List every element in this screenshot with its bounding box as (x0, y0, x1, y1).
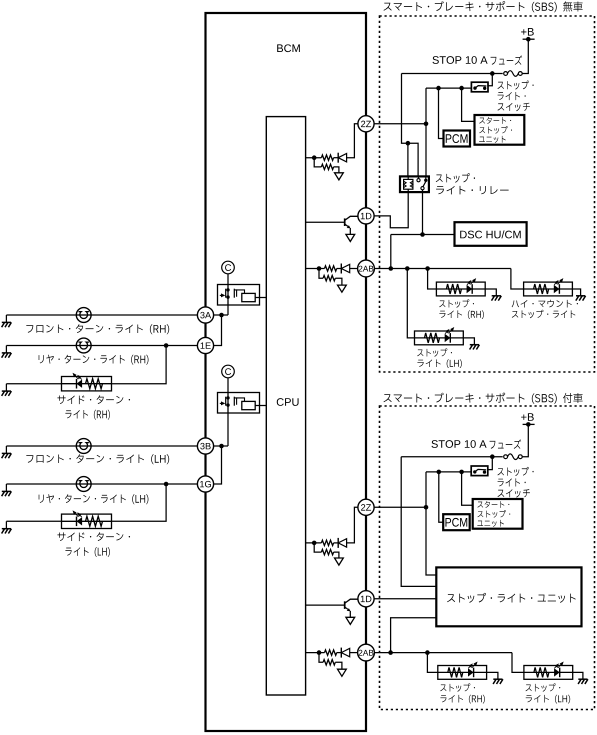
wire fuse to left (401, 456, 503, 458)
diode (337, 153, 339, 163)
resistor (323, 276, 335, 281)
bulb rear turn RH (76, 338, 91, 353)
wire down to stop light unit (401, 457, 436, 587)
ground stop LH lower (578, 679, 588, 684)
wire down to relay feed (402, 74, 408, 144)
label switch line2 (498, 92, 526, 100)
label side turn LH line2 (65, 547, 109, 557)
BCM label (277, 44, 300, 52)
ground side turn LH (5, 521, 7, 528)
wire lamp to ground (485, 289, 496, 296)
label rear turn RH (39, 355, 149, 365)
wire +B to fuse (522, 39, 528, 73)
ground high mount (576, 296, 586, 301)
branch wire (319, 653, 323, 663)
junction SSU feed (459, 86, 464, 91)
wire bulb to 1E (91, 345, 198, 347)
gate wire to driver IC (234, 398, 236, 405)
label switch2 line3 (498, 489, 530, 497)
open triangle ground (346, 617, 355, 624)
open triangle ground (346, 234, 355, 241)
transistor (344, 218, 346, 226)
branch wire (314, 158, 321, 167)
label stop LH lower line2 (526, 695, 570, 704)
+B supply (521, 28, 534, 36)
label fuse katakana (491, 55, 523, 65)
wire 1D to unit (374, 598, 436, 600)
MOSFET symbol (227, 285, 229, 306)
wire relay contact to DSC wire (422, 192, 424, 234)
resistor (325, 650, 337, 655)
wire (335, 278, 342, 285)
label start-stop-unit line3 (477, 520, 504, 527)
wire CPU to 2Z output network (305, 157, 321, 159)
wire lamp to ground (463, 338, 474, 345)
ground front turn RH (5, 315, 7, 322)
relay contact (418, 176, 420, 178)
wire to PCM lower (439, 472, 443, 522)
label stop light unit (447, 593, 576, 603)
wire to 2Z (347, 124, 359, 158)
wire switch horizontal (426, 87, 471, 89)
label front turn RH (26, 324, 169, 334)
label start-stop-unit line3 (479, 136, 506, 143)
wire emitter to triangle (349, 228, 351, 234)
label fuse katakana lower (490, 439, 522, 449)
label stop RH line2 (439, 310, 483, 319)
fuse STOP 10A lower (504, 455, 508, 459)
wire to stop light RH (428, 269, 437, 290)
label stop RH lower line1 (440, 683, 475, 691)
label stop RH line1 (439, 299, 474, 307)
junction PCM feed (437, 470, 442, 475)
ground front turn LH (5, 446, 7, 453)
wire DSC horizontal (391, 234, 455, 236)
ground stop RH (492, 296, 502, 301)
connector C circle (222, 261, 235, 274)
wire driver to CPU (255, 405, 266, 407)
BCM box (206, 13, 367, 731)
wire side lamp to rear wire (112, 484, 167, 521)
wire to PCM (439, 88, 444, 138)
junction stop RH branch lower (425, 650, 430, 655)
wire emitter to triangle (349, 611, 351, 617)
resistor (325, 266, 337, 271)
PCM box upper (444, 131, 471, 147)
wire lamp to ground (572, 289, 580, 296)
label relay line1 (436, 173, 475, 183)
junction (317, 266, 322, 271)
wire bulb to 1G (91, 483, 198, 485)
wire +B to fuse (522, 424, 528, 456)
dashed box SBS-less system (380, 16, 595, 372)
CPU box (266, 117, 305, 695)
label relay line2 (436, 186, 509, 195)
bulb front turn RH (76, 308, 91, 323)
connector 1D (358, 208, 374, 224)
label start-stop-unit line2 (478, 510, 511, 518)
branch wire (314, 543, 321, 552)
label side turn RH line2 (65, 410, 109, 420)
resistor (321, 164, 333, 169)
wire 3A into BCM (213, 314, 228, 316)
wire ground to bulb (6, 345, 76, 347)
wire side lamp to rear wire (112, 346, 167, 384)
resistor (321, 540, 333, 545)
wire ground to side lamp (6, 383, 61, 385)
connector 3A (197, 307, 213, 323)
wire CPU to 2AB (305, 652, 325, 654)
wire to relay coil (407, 143, 409, 176)
junction PCM feed (436, 86, 441, 91)
bulb rear turn LH (76, 477, 91, 492)
stop light LH lamp (415, 331, 464, 345)
junction DSC (420, 232, 425, 237)
label side turn RH line1 (57, 395, 130, 404)
junction (312, 541, 317, 546)
ground rear turn LH (5, 484, 7, 491)
side turn light LH lamp (62, 514, 112, 528)
wire to relay contact (408, 143, 418, 176)
wire lamp to ground (487, 672, 498, 679)
start stop unit box upper (475, 115, 525, 145)
ground side turn RH (5, 384, 7, 391)
branch to 1G (213, 446, 222, 484)
wire switch to fuse node (487, 71, 492, 86)
wire (334, 167, 339, 173)
wire (335, 662, 342, 669)
+B supply lower (521, 413, 534, 421)
connector 3B (197, 438, 213, 454)
diode (337, 538, 339, 548)
label start-stop-unit line2 (479, 126, 512, 134)
connector 1D (358, 591, 374, 607)
label stop LH lower line1 (526, 683, 561, 691)
driver IC (242, 293, 255, 301)
ground stop RH lower (493, 679, 503, 684)
label switch2 line2 (498, 478, 526, 486)
connector C circle (222, 365, 235, 378)
label switch2 line1 (498, 467, 534, 476)
driver IC (242, 401, 255, 409)
junction 2Z node (424, 122, 429, 127)
junction fuse-switch (490, 71, 495, 76)
label rear turn LH (39, 494, 149, 504)
stop light RH lamp lower (438, 666, 487, 680)
dashed box SBS-equipped system (380, 406, 595, 710)
bulb front turn LH (76, 439, 91, 454)
wire 2Z to unit vertical (374, 506, 426, 508)
wire 2AB stop light bus (374, 268, 511, 270)
wire driver2 to 3B wire (227, 413, 229, 446)
open triangle ground (335, 173, 344, 180)
label switch line3 (498, 103, 530, 111)
title SBS-less (384, 1, 583, 12)
junction stop RH branch (425, 266, 430, 271)
junction (312, 155, 317, 160)
wire 2AB stop light bus lower (374, 652, 512, 654)
driver box (output transistor module) (218, 285, 260, 306)
wire CPU to transistor base (305, 221, 345, 223)
wire C to driver (227, 378, 229, 393)
junction to DSC branch (389, 266, 394, 271)
high mount stop light lamp (524, 282, 573, 296)
label switch line1 (498, 81, 534, 90)
connector 2Z (358, 116, 374, 132)
ground rear turn RH (5, 346, 7, 353)
wire 2Z to switch-relay vertical (374, 123, 426, 125)
label STOP fuse (432, 56, 487, 64)
connector 1G (197, 476, 213, 492)
wire C to driver (227, 274, 229, 285)
wire down to 2AB wire (390, 235, 392, 269)
wire lamp to ground (573, 672, 583, 679)
diode (340, 264, 342, 274)
connector 2Z (358, 499, 374, 515)
junction (219, 444, 224, 449)
stop light RH lamp (436, 282, 485, 296)
stop light switch lower (471, 466, 488, 476)
connector 1E (197, 337, 213, 353)
wire ground to bulb (6, 483, 76, 485)
stop light switch upper (471, 82, 488, 92)
wire fuse to left (402, 73, 503, 75)
junction (219, 313, 224, 318)
PCM box lower (443, 514, 470, 530)
wire unit to 2AB bus (391, 618, 437, 653)
stop light relay box (400, 176, 429, 192)
resistor (321, 155, 333, 160)
junction unit branch (388, 650, 393, 655)
branch to 1E (213, 315, 222, 346)
junction 2Z node lower (424, 505, 429, 510)
stop light unit box (436, 567, 581, 626)
wire to start stop unit lower (462, 472, 473, 505)
label stop RH lower line2 (440, 695, 484, 704)
wire bulb to 3B (91, 445, 198, 447)
wire to stop light RH lower (427, 653, 437, 673)
wire 1D to relay coil (374, 192, 408, 228)
wire to 2Z (347, 507, 359, 543)
wire CPU to 2AB (305, 268, 325, 270)
junction (317, 650, 322, 655)
CPU label (277, 398, 299, 406)
label high mount line1 (512, 300, 578, 308)
branch wire (319, 269, 323, 279)
MOSFET symbol (227, 393, 229, 414)
connector 2AB (358, 260, 375, 277)
wire ground to side lamp (6, 520, 61, 522)
wire to high mount stop light (511, 269, 524, 290)
junction SSU feed (459, 470, 464, 475)
diode (340, 648, 342, 658)
wire CPU to transistor base (305, 604, 345, 606)
junction side LH (164, 482, 169, 487)
stop light LH lamp lower (524, 666, 573, 680)
relay coil (404, 179, 413, 189)
wire driver1 to 3A wire (227, 305, 229, 315)
wire to stop light LH lower (512, 653, 524, 673)
wire switch node down to relay (425, 88, 427, 176)
open triangle ground (335, 558, 344, 565)
transistor (344, 601, 346, 609)
ground stop LH (470, 345, 480, 350)
label front turn LH (26, 454, 169, 464)
label start-stop-unit line1 (479, 117, 511, 124)
label high mount line2 (512, 310, 576, 318)
wire CPU to 2Z output network (305, 542, 321, 544)
label STOP fuse lower (431, 440, 486, 448)
connector 2AB (358, 644, 375, 661)
driver box (output transistor module) (218, 393, 260, 414)
label side turn LH line1 (57, 532, 130, 541)
label stop LH line1 (417, 348, 452, 356)
junction stop LH branch (405, 266, 410, 271)
wire (334, 552, 339, 558)
DSC HU/CM box (455, 222, 527, 246)
wire 3B into BCM (213, 445, 228, 447)
side turn light RH lamp (62, 377, 112, 391)
label start-stop-unit line1 (477, 501, 509, 508)
open triangle ground (338, 285, 347, 292)
label stop LH line2 (417, 359, 461, 368)
wire driver to CPU (255, 297, 266, 299)
wire ground to bulb (6, 314, 76, 316)
wire to stop light LH (407, 269, 414, 338)
junction relay feed (406, 141, 411, 146)
wire switch horizontal lower (426, 471, 471, 473)
wire switch to fuse node (487, 455, 492, 470)
title SBS-equipped (384, 393, 583, 404)
open triangle ground (338, 669, 347, 676)
wire to start stop unit (462, 88, 475, 121)
gate wire to driver IC (234, 290, 236, 297)
fuse STOP 10A (504, 72, 508, 76)
wire bulb to 3A (91, 314, 198, 316)
resistor (323, 660, 335, 665)
resistor (321, 549, 333, 554)
junction fuse-switch (490, 454, 495, 459)
wire switch node down to unit (426, 472, 436, 575)
start stop unit box lower (473, 499, 523, 529)
junction side RH (164, 343, 169, 348)
wire ground to bulb (6, 445, 76, 447)
